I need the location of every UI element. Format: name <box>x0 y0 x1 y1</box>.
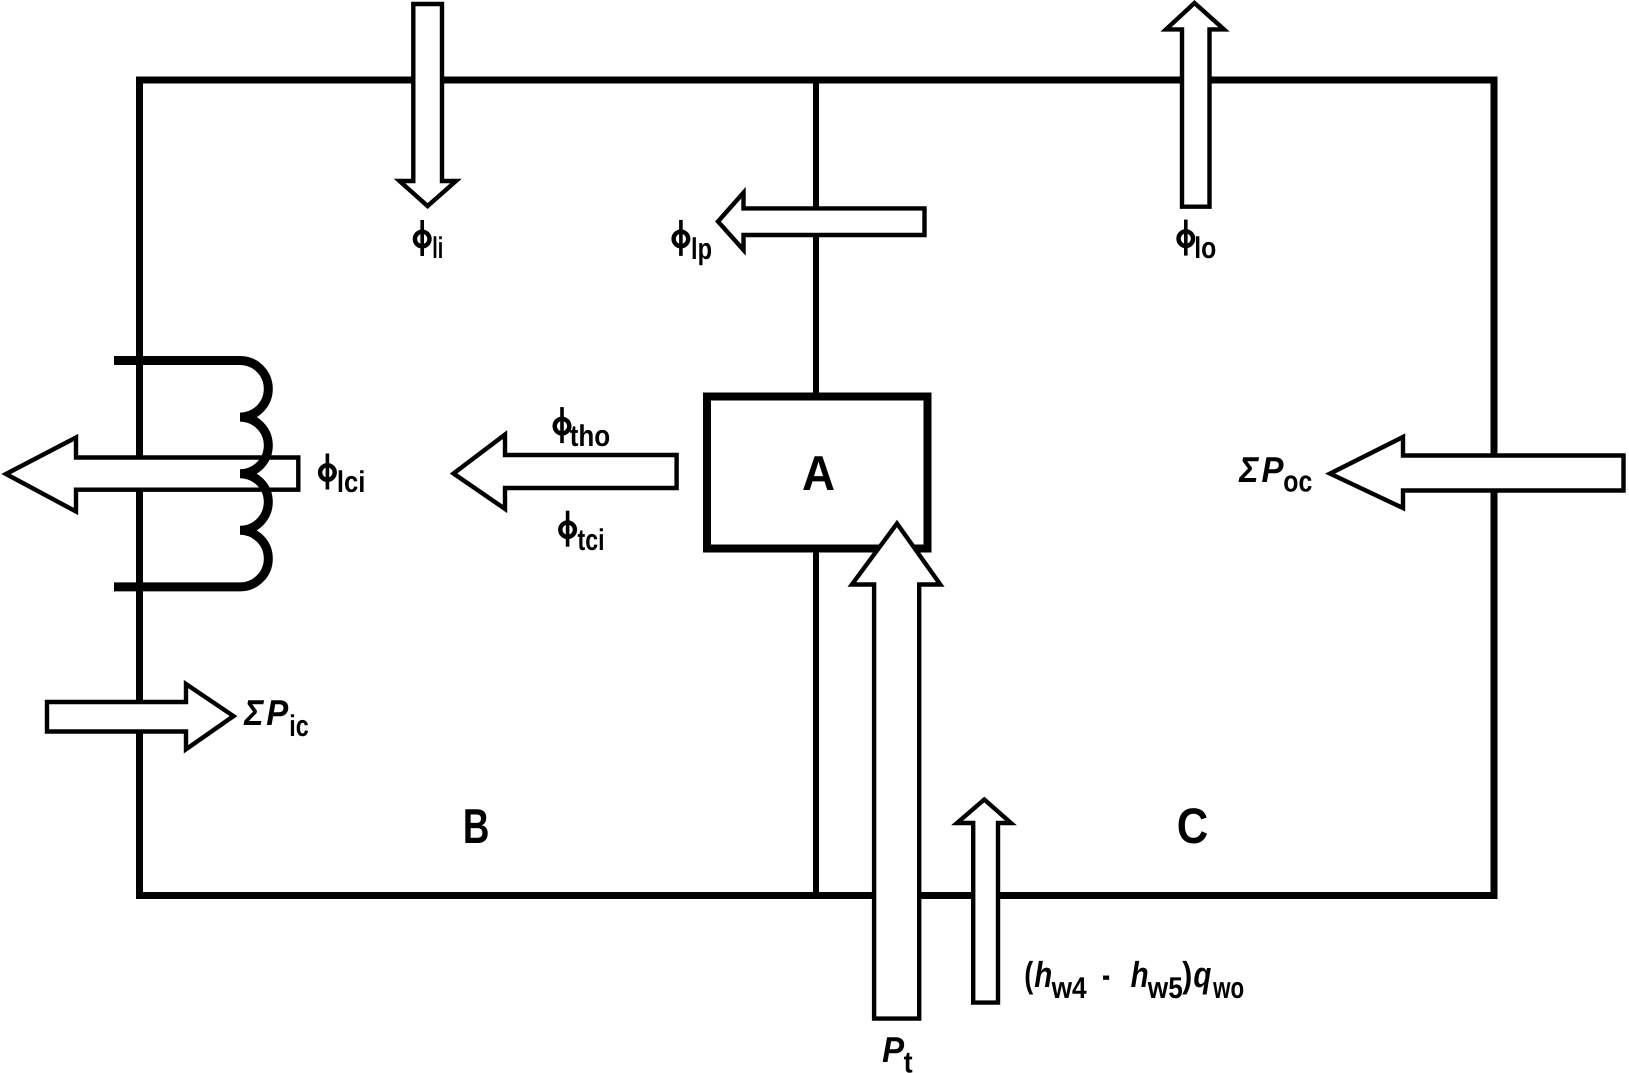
arrow sigma-P_oc (left, into right wall of C) <box>1330 437 1624 508</box>
arrow (h_w4-h_w5)q_wo (small up, into bottom of C) <box>957 800 1011 1003</box>
svg-text:oc: oc <box>1283 466 1312 499</box>
svg-text:Σ: Σ <box>243 692 264 733</box>
label phi_tho <box>555 407 611 453</box>
label (h_w4 - h_w5)q_wo <box>1024 954 1244 1005</box>
svg-text:lci: lci <box>337 466 366 499</box>
label phi_lo <box>1179 220 1217 265</box>
svg-text:wo: wo <box>1212 972 1244 1005</box>
label phi_lci <box>320 454 365 500</box>
coil heat exchanger on left wall <box>114 361 268 587</box>
label phi_li <box>415 220 443 265</box>
svg-text:lo: lo <box>1194 232 1216 265</box>
label phi_tci <box>560 511 604 557</box>
arrow phi_tho / phi_tci (left, from box A) <box>454 435 677 509</box>
label P_t <box>882 1029 913 1073</box>
label sigma-P_ic <box>243 692 308 743</box>
svg-text:tho: tho <box>570 420 611 453</box>
svg-text:w4: w4 <box>1051 972 1087 1005</box>
svg-text:P: P <box>1262 449 1285 490</box>
svg-text:C: C <box>1177 798 1209 854</box>
svg-text:li: li <box>432 232 443 265</box>
svg-text:lp: lp <box>691 233 712 266</box>
label phi_lp <box>674 220 712 266</box>
outer enclosure box <box>140 80 1495 896</box>
arrow P_t (big up, into bottom of box A) <box>852 524 940 1019</box>
svg-text:ic: ic <box>289 710 309 743</box>
label sigma-P_oc <box>1238 449 1312 499</box>
svg-text:t: t <box>904 1047 913 1073</box>
arrow phi_lo (up, out of top of C) <box>1166 3 1224 207</box>
arrow phi_lp (left, through divider) <box>718 193 925 250</box>
arrow phi_lci (big left, through coil and wall) <box>6 438 298 512</box>
svg-text:w5: w5 <box>1147 972 1183 1005</box>
svg-text:P: P <box>882 1029 905 1070</box>
svg-text:q: q <box>1193 954 1211 995</box>
svg-text:(: ( <box>1024 954 1033 995</box>
svg-text:B: B <box>463 800 490 854</box>
svg-text:-: - <box>1102 954 1110 995</box>
box A <box>707 397 928 549</box>
svg-text:h: h <box>1034 954 1052 995</box>
svg-text:P: P <box>266 692 289 733</box>
arrow phi_li (down, into top of B) <box>400 4 457 206</box>
divider wall between B and C <box>813 80 819 896</box>
svg-text:A: A <box>802 447 835 501</box>
svg-text:tci: tci <box>578 524 605 557</box>
svg-text:): ) <box>1182 954 1192 995</box>
svg-text:Σ: Σ <box>1238 449 1259 490</box>
arrow sigma-P_ic (right, into left wall of B) <box>47 684 234 749</box>
svg-text:h: h <box>1131 954 1149 995</box>
